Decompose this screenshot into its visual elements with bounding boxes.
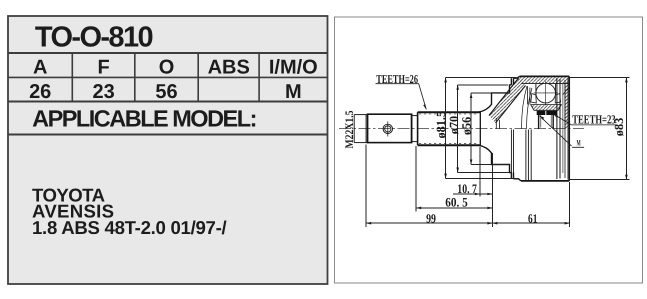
spline end face <box>479 112 481 146</box>
svg-text:99: 99 <box>426 211 436 225</box>
svg-text:61: 61 <box>528 211 537 225</box>
99 dimension <box>366 145 492 227</box>
right wall hatched strip <box>565 83 569 128</box>
cavity mouth chamfer <box>563 87 570 95</box>
60.5 arrows <box>416 207 421 210</box>
cavity left wall lines <box>526 86 528 105</box>
svg-text:APPLICABLE MODEL:: APPLICABLE MODEL: <box>32 105 257 131</box>
right side groove verticals <box>557 78 568 180</box>
M leader arrow <box>540 116 545 120</box>
dia 70 dimension <box>458 85 511 173</box>
cage right wedge <box>555 94 560 104</box>
table h-line under APPLICABLE MODEL <box>8 134 328 136</box>
drawing labels <box>344 72 626 225</box>
svg-text:M: M <box>577 138 581 148</box>
body exterior groove lines (bottom half) <box>526 130 531 181</box>
61 arrows <box>492 222 497 225</box>
TEETH=23 leader arrow <box>554 114 559 118</box>
61 dimension <box>492 182 569 227</box>
dia83 arrows <box>625 77 628 82</box>
TEETH=23 leader <box>554 114 617 125</box>
10.7 dimension <box>453 147 493 227</box>
inner race hatched <box>531 105 562 111</box>
svg-text:A: A <box>33 57 47 79</box>
svg-text:1.8 ABS 48T-2.0 01/97-/: 1.8 ABS 48T-2.0 01/97-/ <box>32 217 227 238</box>
svg-text:O: O <box>159 57 175 79</box>
M leader <box>540 116 585 148</box>
svg-text:ø81.5: ø81.5 <box>434 111 448 139</box>
dia81.5 arrows <box>444 77 447 82</box>
race bore walls <box>538 115 540 129</box>
svg-text:M22X1.5: M22X1.5 <box>344 110 356 148</box>
bell inner track arcs <box>522 86 528 129</box>
boot ridge lines lower half <box>511 130 513 173</box>
table v-lines <box>71 53 73 102</box>
table h-line under header <box>8 76 328 78</box>
spline section TEETH=26 <box>418 112 481 145</box>
svg-text:TO-O-810: TO-O-810 <box>35 22 154 54</box>
neck groove <box>412 114 418 142</box>
drawing frame <box>335 17 643 283</box>
TEETH=26 leader <box>376 84 427 110</box>
table h-line under title <box>8 52 328 54</box>
dia56 arrows <box>470 93 473 98</box>
dia70 arrows <box>456 85 459 90</box>
bell bottom profile <box>478 145 521 181</box>
10.7 arrows <box>475 193 480 196</box>
ball <box>534 81 558 105</box>
60.5 dimension <box>416 146 492 212</box>
svg-text:23: 23 <box>92 81 114 103</box>
table h-line under values <box>8 101 328 103</box>
leader lines <box>376 84 617 148</box>
body outer shell <box>520 76 570 180</box>
TEETH=26 leader arrow <box>423 104 426 110</box>
cotter pin hole mark <box>383 121 392 136</box>
bell wall hatched band (section, top) <box>489 78 526 123</box>
race spline black band <box>537 111 557 115</box>
threaded stub end <box>354 115 367 143</box>
svg-text:M: M <box>285 81 302 103</box>
dia 81.5 dimension <box>446 77 519 178</box>
99 arrows <box>366 222 371 225</box>
svg-text:ø56: ø56 <box>460 117 474 135</box>
svg-text:I/M/O: I/M/O <box>269 57 318 79</box>
dimension arrows <box>366 77 628 224</box>
svg-text:26: 26 <box>29 81 51 103</box>
svg-text:F: F <box>97 57 109 79</box>
bell top profile <box>478 76 519 112</box>
svg-text:TEETH=23: TEETH=23 <box>572 113 615 127</box>
dia 83 dimension <box>569 77 629 179</box>
svg-text:ø83: ø83 <box>612 118 626 136</box>
dia 56 dimension <box>471 93 508 165</box>
table background <box>8 16 328 284</box>
svg-text:TEETH=26: TEETH=26 <box>376 72 418 86</box>
cage pocket edges <box>535 84 537 95</box>
svg-text:56: 56 <box>155 81 177 103</box>
neck bore lines top <box>495 118 497 129</box>
svg-text:60. 5: 60. 5 <box>445 195 468 210</box>
cage left wedge <box>531 94 537 104</box>
shaft body <box>368 114 412 142</box>
centerline <box>339 128 584 130</box>
svg-text:ABS: ABS <box>208 57 250 79</box>
